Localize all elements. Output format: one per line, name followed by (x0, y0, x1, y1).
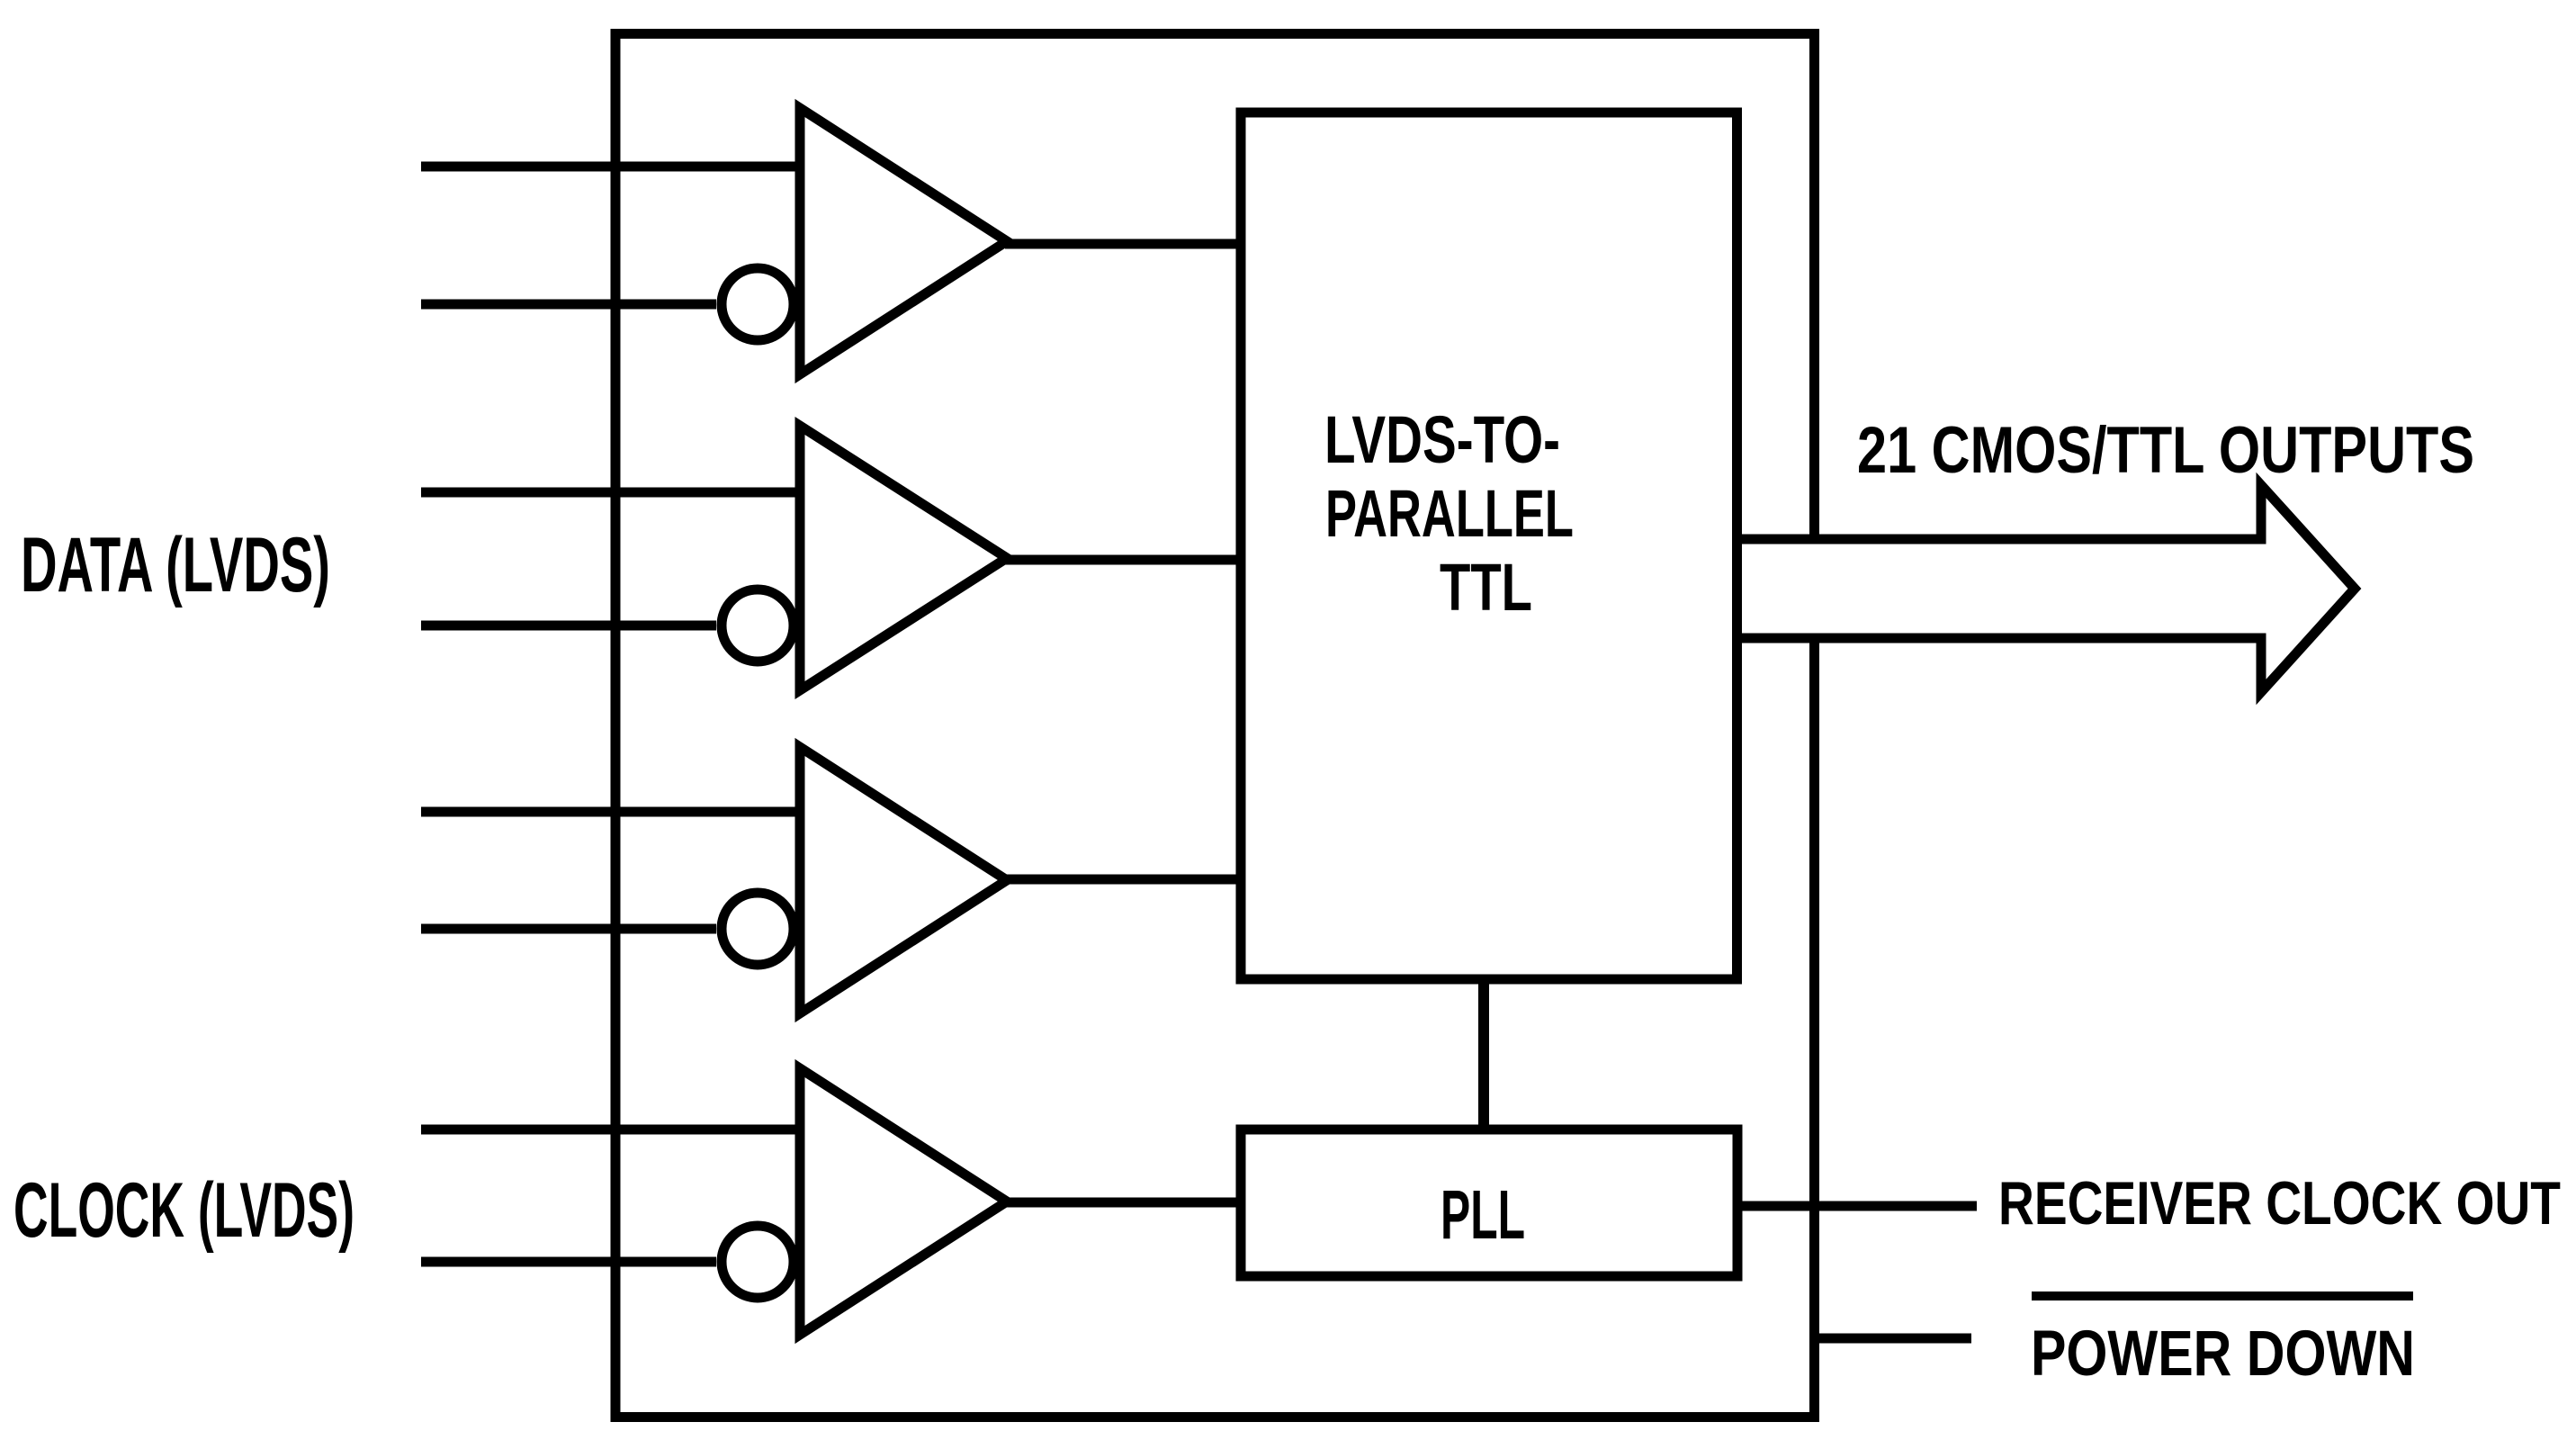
wire power down input (1814, 1334, 1971, 1344)
buffer U3 (LVDS receiver 3) (800, 747, 1007, 1013)
buffer U1 (LVDS receiver 1) (800, 108, 1007, 374)
svg-text:TTL: TTL (1440, 550, 1532, 625)
wire clock buffer output to PLL (1005, 1198, 1242, 1208)
wire input line 1 (data pair 1 +) (421, 162, 804, 172)
overline for POWER DOWN (active low) (2032, 1291, 2413, 1300)
wire input line 2 (data pair 1 -) (421, 300, 716, 310)
inversion bubble U1 (722, 268, 794, 340)
svg-text:CLOCK (LVDS): CLOCK (LVDS) (13, 1167, 355, 1254)
block arrow 21 CMOS/TTL outputs (1742, 485, 2355, 692)
svg-text:21 CMOS/TTL OUTPUTS: 21 CMOS/TTL OUTPUTS (1857, 414, 2474, 487)
wire input line 4 (data pair 2 -) (421, 621, 716, 631)
wire buffer1 output to converter (1005, 239, 1242, 249)
wire input line 7 (clock +) (421, 1125, 804, 1135)
buffer U2 (LVDS receiver 2) (800, 426, 1007, 690)
svg-text:RECEIVER CLOCK OUT: RECEIVER CLOCK OUT (1998, 1169, 2561, 1237)
inversion bubble U3 (722, 893, 794, 965)
wire input line 5 (data pair 3 +) (421, 807, 804, 817)
wire buffer2 output to converter (1005, 555, 1242, 565)
svg-text:POWER DOWN: POWER DOWN (2031, 1318, 2415, 1390)
inversion bubble U2 (722, 589, 794, 661)
svg-text:DATA (LVDS): DATA (LVDS) (21, 522, 330, 608)
wire receiver clock out (1737, 1201, 1977, 1211)
LVDS-to-parallel converter block U5 (1241, 112, 1737, 979)
wire buffer3 output to converter (1005, 875, 1242, 885)
svg-text:PLL: PLL (1441, 1176, 1525, 1254)
buffer U4 (clock LVDS receiver) (800, 1068, 1007, 1335)
wire input line 8 (clock -) (421, 1257, 716, 1267)
svg-text:PARALLEL: PARALLEL (1325, 476, 1574, 551)
wire input line 3 (data pair 2 +) (421, 488, 804, 498)
wire converter to PLL (1478, 979, 1489, 1130)
svg-text:LVDS-TO-: LVDS-TO- (1324, 402, 1560, 477)
PLL block (1241, 1129, 1737, 1276)
inversion bubble U4 (722, 1226, 794, 1298)
chip outer box (615, 34, 1815, 1417)
wire input line 6 (data pair 3 -) (421, 924, 716, 934)
